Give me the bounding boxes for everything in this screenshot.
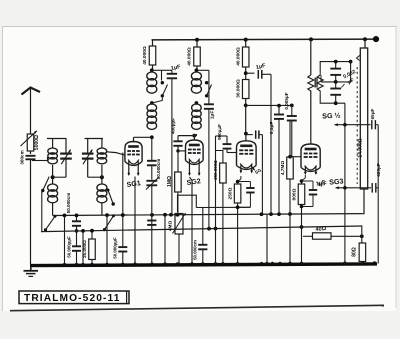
node rail junction at output tube bbox=[309, 37, 313, 41]
inductor L4a bbox=[191, 72, 201, 93]
wire R7 bottom bbox=[302, 205, 314, 265]
label R8 250Ω bbox=[228, 187, 234, 199]
node tone top bbox=[334, 60, 338, 64]
resistor R7 800Ω bbox=[298, 184, 305, 205]
node busA junction 8 bbox=[176, 213, 180, 217]
svg-text:4,7MΩ: 4,7MΩ bbox=[280, 161, 286, 176]
svg-text:40Ω: 40Ω bbox=[315, 226, 327, 233]
wire T3 cathode drop bbox=[238, 176, 241, 184]
wire R11 link bbox=[361, 226, 363, 243]
node ground junction 22 bbox=[342, 261, 347, 263]
label 25.000Ω bbox=[82, 240, 87, 258]
label R12 40Ω bbox=[315, 226, 327, 233]
wire bus B bbox=[41, 226, 362, 232]
node ground junction 13 bbox=[213, 262, 218, 264]
node ground junction 1 bbox=[62, 263, 67, 265]
wire T3 anode bbox=[245, 134, 247, 142]
capacitor C18 625µF bbox=[372, 183, 378, 193]
svg-text:30.000Ω: 30.000Ω bbox=[235, 79, 241, 98]
wire heater line 2 bbox=[336, 186, 372, 189]
label C19 50.000µµF bbox=[113, 237, 118, 259]
node rail junction at transformer bbox=[363, 37, 367, 41]
wire SG2 anode bbox=[178, 134, 196, 141]
capacitor C-left1 50.000cm bbox=[72, 216, 81, 232]
node ground junction 7 bbox=[132, 262, 137, 264]
wire vertical drop 4 bbox=[164, 215, 166, 264]
wire heater line 1 bbox=[335, 123, 371, 126]
title box bbox=[19, 291, 129, 304]
resistor R3a 40.000Ω bbox=[242, 40, 249, 73]
resistor R2 40.000Ω bbox=[194, 40, 201, 71]
node tuned2 tap bbox=[100, 175, 104, 179]
label SG2 bbox=[186, 178, 201, 187]
node busB junction 5 bbox=[300, 225, 304, 229]
label R3a 40.000Ω bbox=[235, 47, 241, 66]
node ground junction 11 bbox=[189, 262, 194, 264]
label 5000Ω bbox=[34, 135, 40, 150]
capacitor C2 50.000cm bbox=[147, 137, 157, 179]
wire vertical x215 bbox=[216, 136, 228, 264]
label 14.000Ω bbox=[358, 138, 364, 157]
svg-text:50.000cm: 50.000cm bbox=[66, 193, 71, 214]
node L3 tap bbox=[150, 101, 154, 105]
wire L2 middle bbox=[101, 165, 103, 184]
inductor L4b bbox=[192, 104, 202, 129]
wire bus A right extras bbox=[289, 213, 291, 215]
switch S4 bbox=[205, 81, 212, 98]
wire vertical drop 1 bbox=[64, 215, 66, 264]
resistor R-zig1 bbox=[308, 75, 314, 91]
capacitor C-tune1 variable bbox=[60, 139, 72, 178]
node heater1 junction bbox=[343, 123, 347, 127]
capacitor C10 0,005µF bbox=[287, 105, 297, 156]
node T3 cathode bbox=[236, 180, 240, 184]
node heater2 junction bbox=[343, 186, 347, 190]
label SG3 tube bbox=[0, 0, 1, 1]
inductor L1a bbox=[48, 148, 58, 164]
svg-text:14.000Ω: 14.000Ω bbox=[358, 138, 364, 157]
capacitor C9 0,1µF bbox=[274, 106, 284, 214]
node R2 bottom bbox=[195, 68, 199, 72]
node L4 tap bbox=[195, 101, 199, 105]
capacitor C15 tone upper bbox=[330, 62, 341, 82]
capacitor C3 trimmer bbox=[146, 178, 159, 265]
capacitor C6 400µµF bbox=[173, 136, 182, 172]
wire bus B left end bbox=[41, 192, 43, 232]
wire SG3 grid bbox=[290, 156, 301, 158]
node ground junction 2 bbox=[74, 263, 79, 265]
label SG3 heater bbox=[317, 176, 344, 188]
svg-text:40.000Ω: 40.000Ω bbox=[187, 47, 193, 66]
wire R2 junction bbox=[196, 70, 209, 104]
label C9 0,1µF bbox=[269, 122, 275, 135]
node tone mid bbox=[334, 80, 338, 84]
resistor R11 80Ω bbox=[359, 243, 366, 264]
svg-text:50.000μμF: 50.000μμF bbox=[113, 237, 118, 259]
inductor L3a bbox=[147, 72, 157, 93]
node ground junction 16 bbox=[259, 262, 264, 264]
speaker transformer bbox=[357, 48, 368, 189]
node ground junction 3 bbox=[80, 263, 85, 265]
resistor R6 4,7MΩ bbox=[287, 121, 294, 265]
resistor R1 40.000Ω bbox=[149, 40, 156, 70]
antenna bbox=[22, 88, 41, 135]
svg-text:0,005μF: 0,005μF bbox=[284, 92, 289, 109]
inductor L3b bbox=[147, 104, 157, 129]
label R5 250.000Ω bbox=[213, 160, 218, 180]
resistor R-ant 5000Ω bbox=[21, 131, 37, 151]
label C8 1µF bbox=[255, 63, 266, 71]
resistor R3b 30.000Ω bbox=[242, 73, 249, 105]
label SG 1/2 bbox=[322, 111, 341, 121]
capacitor C14 1µF bbox=[302, 181, 318, 207]
node busA junction 11 bbox=[277, 212, 281, 216]
capacitor C13 cathode bbox=[238, 182, 255, 208]
capacitor C-zig bars bbox=[315, 78, 317, 88]
svg-text:25.000Ω: 25.000Ω bbox=[82, 240, 87, 258]
node ground junction 23 bbox=[360, 261, 365, 263]
label C12 900µµF bbox=[217, 124, 222, 140]
label 300cm bbox=[20, 150, 25, 164]
node ground junction 5 bbox=[104, 263, 109, 265]
node R7 bottom bbox=[300, 205, 304, 209]
wire T3 heater mark bbox=[251, 167, 262, 176]
svg-text:TRIALMO-520-11: TRIALMO-520-11 bbox=[24, 293, 120, 304]
label R11 80Ω bbox=[352, 247, 358, 257]
wire L3 bottom bbox=[151, 136, 153, 137]
node rail junction at R2 bbox=[195, 38, 199, 42]
capacitor C-tune2 variable bbox=[82, 139, 94, 178]
wire tone mid bbox=[321, 62, 351, 82]
label R7 800Ω bbox=[291, 188, 297, 200]
node ground junction 17 bbox=[264, 262, 269, 264]
svg-text:65μF: 65μF bbox=[370, 108, 375, 119]
node SG2 grid node bbox=[176, 149, 179, 152]
wire transformer top lead bbox=[364, 39, 366, 48]
vacuum tube SG3 output bbox=[301, 144, 320, 175]
wire L4 bottom bbox=[195, 135, 197, 137]
label C18 625µF bbox=[376, 163, 381, 176]
svg-text:300cm: 300cm bbox=[20, 150, 25, 164]
wire antenna tap to coil bbox=[32, 157, 48, 161]
node ground junction 15 bbox=[235, 262, 240, 264]
svg-text:50.000cm: 50.000cm bbox=[156, 159, 161, 180]
node busA junction 5 bbox=[150, 213, 154, 217]
label C7 50.000cm bbox=[193, 240, 198, 260]
svg-text:800Ω: 800Ω bbox=[291, 188, 297, 200]
switch S2b below bus bbox=[103, 214, 115, 231]
switch S2a bbox=[107, 189, 115, 206]
wire vertical drop 2 bbox=[106, 215, 108, 264]
wire tuned1 top bbox=[47, 139, 67, 149]
wire L2b bottom bbox=[101, 204, 103, 216]
wire S3 to tap bbox=[152, 96, 162, 103]
svg-text:40.000Ω: 40.000Ω bbox=[235, 47, 241, 66]
capacitor C19 50.000µµF bbox=[118, 247, 127, 251]
node R6 top bbox=[288, 155, 292, 159]
label R2 40.000Ω bbox=[187, 47, 193, 66]
svg-text:5000Ω: 5000Ω bbox=[34, 135, 40, 150]
resistor R4 1MΩ bbox=[175, 172, 182, 215]
wire SG2 cathode to ground bbox=[190, 177, 193, 264]
wire C7 drop bbox=[202, 207, 204, 264]
svg-text:250Ω: 250Ω bbox=[228, 187, 234, 199]
wire antenna down bbox=[30, 159, 32, 264]
node busA junction 10 bbox=[269, 212, 273, 216]
wire vertical drop 3 bbox=[134, 215, 136, 264]
node tone bottom bbox=[334, 101, 338, 105]
node busA junction 9 bbox=[260, 212, 264, 216]
wire detector node bbox=[246, 105, 292, 133]
wire L1b bottom bbox=[52, 204, 54, 216]
svg-text:250.000Ω: 250.000Ω bbox=[213, 160, 218, 180]
wire tuned2 top bbox=[85, 139, 104, 149]
wire SG1 anode bbox=[134, 137, 152, 142]
node busA junction 1 bbox=[63, 214, 67, 218]
node R1 bottom bbox=[150, 68, 154, 72]
node busA junction 12 bbox=[288, 212, 292, 216]
resistor R5 250.000Ω bbox=[216, 151, 227, 265]
node SG1 anode junction bbox=[150, 135, 154, 139]
node busA junction 6 bbox=[163, 213, 167, 217]
node ground junction 9 bbox=[162, 262, 167, 264]
label R3b 30.000Ω bbox=[235, 79, 241, 98]
capacitor C17 65µF bbox=[372, 120, 378, 129]
wire grid lead SG1 bbox=[107, 152, 125, 155]
resistor R8 250Ω bbox=[234, 184, 241, 203]
node rail junction at R3 bbox=[244, 38, 248, 42]
capacitor C1 1µF bbox=[162, 70, 178, 215]
capacitor C11 coupling bbox=[246, 130, 263, 214]
node busB junction 1 bbox=[81, 229, 85, 233]
wire vertical x267 bbox=[266, 214, 268, 264]
svg-text:50.000cm: 50.000cm bbox=[193, 240, 198, 260]
wire ground rail bbox=[30, 262, 377, 267]
capacitor C4 on line bbox=[147, 221, 156, 225]
wire C-tune1 bottom bbox=[53, 176, 66, 178]
inductor L2b bbox=[97, 184, 107, 203]
label R6 4,7MΩ bbox=[280, 161, 286, 176]
svg-text:SG3: SG3 bbox=[329, 176, 344, 186]
wire SG2 staircase bbox=[178, 195, 251, 212]
capacitor C-ant series bbox=[26, 156, 36, 160]
svg-text:400μμF: 400μμF bbox=[171, 118, 176, 134]
wire tuned2 to bus bbox=[122, 153, 124, 265]
switch S1a bbox=[41, 177, 49, 193]
title text TRIALMO-520-11 bbox=[24, 293, 120, 304]
label 50.000µµF left bbox=[67, 236, 72, 258]
label C15 0,002µF bbox=[342, 69, 357, 87]
node SG3 cathode bbox=[300, 179, 304, 183]
node busB junction 3 bbox=[207, 227, 211, 231]
capacitor C-left2 50.000µµF bbox=[72, 231, 81, 264]
node ground junction 21 bbox=[299, 262, 304, 264]
wire SG2 grid bbox=[178, 150, 186, 152]
capacitor C5 1µF bbox=[204, 104, 214, 228]
wire R8 bottom loop bbox=[238, 203, 251, 264]
wire R12 left drop bbox=[302, 235, 304, 237]
label C17 65µF bbox=[370, 108, 375, 119]
node SG2 anode junction bbox=[192, 134, 196, 138]
node ground junction 6 bbox=[120, 262, 125, 264]
node busA junction 2 bbox=[75, 213, 79, 217]
resistor R9 potentiometer 4MΩ bbox=[173, 213, 186, 264]
switch S3 bbox=[161, 81, 168, 98]
wire R1 junction bbox=[152, 70, 162, 80]
node ground junction 4 bbox=[89, 263, 94, 265]
svg-text:80Ω: 80Ω bbox=[352, 247, 358, 257]
label C5 1µF bbox=[210, 111, 216, 120]
label 50.000cm left bbox=[66, 193, 71, 214]
label C1 1µF bbox=[170, 64, 181, 72]
switch S1b below bus bbox=[44, 215, 57, 232]
wire right edge drop bbox=[377, 125, 379, 264]
node tone top2 bbox=[349, 60, 353, 64]
label R1 40.000Ω bbox=[142, 46, 148, 65]
node busA junction 7 bbox=[169, 213, 173, 217]
node R3 mid bbox=[244, 71, 248, 75]
node tuned1 tap bbox=[51, 175, 55, 179]
node ground junction 14 bbox=[220, 262, 225, 264]
node detector node bbox=[244, 104, 248, 108]
node B+ terminal bbox=[373, 36, 379, 42]
label C10 0,005µF bbox=[284, 92, 289, 109]
node busB junction 2 bbox=[90, 229, 94, 233]
node ground junction 19 bbox=[277, 262, 282, 264]
node ground junction 18 bbox=[270, 262, 275, 264]
wire SG3 anode line bbox=[310, 39, 312, 144]
svg-text:1μF: 1μF bbox=[210, 111, 216, 120]
node ground junction 24 bbox=[372, 261, 377, 263]
wire C8 down bbox=[270, 74, 272, 214]
node left chain bbox=[75, 229, 79, 233]
node R8 bottom bbox=[236, 205, 240, 209]
capacitor C16 tone lower bbox=[330, 82, 341, 103]
resistor R-left 25.000Ω bbox=[89, 231, 96, 264]
resistor R-zig2 bbox=[317, 71, 323, 95]
node R12 right bbox=[360, 234, 364, 238]
svg-text:50.000μμF: 50.000μμF bbox=[67, 236, 72, 258]
svg-text:SG ½: SG ½ bbox=[322, 111, 341, 121]
wire B+ rail bbox=[152, 38, 377, 41]
wire SG3 cathode drop bbox=[302, 175, 306, 184]
node ground junction 20 bbox=[287, 262, 292, 264]
node C9 junction bbox=[277, 104, 294, 108]
wire L1 middle bbox=[52, 165, 54, 184]
vacuum tube SG2 bbox=[186, 140, 204, 176]
wire transformer bottom bbox=[363, 189, 364, 214]
capacitor C8 1µF bbox=[246, 70, 271, 79]
svg-text:4MΩ: 4MΩ bbox=[168, 221, 174, 232]
svg-text:0,1μF: 0,1μF bbox=[269, 122, 275, 135]
vacuum tube SG1 bbox=[125, 142, 142, 177]
svg-text:900μμF: 900μμF bbox=[217, 124, 222, 140]
capacitor C12 grid 900µµF bbox=[223, 136, 237, 153]
node ground junction 8 bbox=[149, 262, 154, 264]
capacitor C7 50.000cm bbox=[198, 245, 207, 250]
wire tone to ground bbox=[344, 103, 346, 264]
node T3 anode junction bbox=[244, 132, 248, 136]
wire SG1 cathode to ground bbox=[134, 177, 136, 265]
svg-text:40.000Ω: 40.000Ω bbox=[142, 46, 148, 65]
label SG1 bbox=[126, 180, 141, 189]
wire left bus drop bbox=[82, 231, 84, 264]
label C14 1µF bbox=[315, 179, 326, 187]
inductor L1b bbox=[48, 184, 58, 203]
wire tone box bbox=[320, 62, 350, 104]
wire C-tune2 bottom bbox=[88, 176, 101, 178]
node ground junction 10 bbox=[175, 262, 180, 264]
node busA junction 3 bbox=[105, 213, 109, 217]
node busB junction 4 bbox=[214, 227, 218, 231]
resistor R12 40Ω bbox=[303, 233, 362, 239]
label C2 50.000cm bbox=[156, 159, 161, 180]
wire bus A bbox=[53, 214, 363, 216]
ground symbol bbox=[24, 267, 39, 276]
vacuum tube T3 detector bbox=[237, 141, 257, 174]
node busA junction 4 bbox=[121, 213, 125, 217]
label R4 1MΩ bbox=[167, 176, 173, 187]
label C6 400µµF bbox=[171, 118, 176, 134]
svg-text:1MΩ: 1MΩ bbox=[167, 176, 173, 187]
label R9 4MΩ bbox=[168, 221, 174, 232]
wire antenna to cap bbox=[30, 151, 32, 154]
inductor L2a bbox=[97, 148, 107, 164]
node ground junction 12 bbox=[200, 262, 205, 264]
